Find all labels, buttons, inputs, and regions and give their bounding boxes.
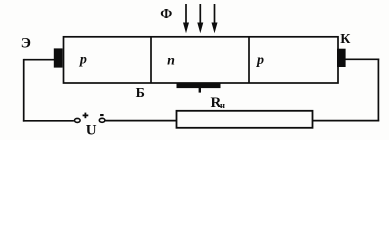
collector contact electrode <box>337 49 346 67</box>
wire left vertical <box>23 59 25 122</box>
plus sign <box>83 113 89 119</box>
wire emitter horizontal <box>24 59 55 61</box>
svg-text:К: К <box>340 32 351 47</box>
wire bottom left <box>23 120 74 122</box>
junction divider 2 (n-p) <box>248 37 250 83</box>
base terminal tick <box>199 88 201 93</box>
wire collector horizontal <box>346 58 380 60</box>
light arrow 1 <box>183 4 189 33</box>
minus sign <box>100 114 104 116</box>
battery terminal circle right <box>99 118 105 122</box>
junction divider 1 (p-n) <box>150 37 152 83</box>
wire resistor to right <box>313 120 380 122</box>
emitter contact electrode <box>54 48 63 67</box>
svg-text:н: н <box>220 100 225 110</box>
resistor Rн body <box>177 111 313 128</box>
svg-text:p: p <box>256 53 264 68</box>
wire right vertical <box>377 59 379 122</box>
svg-text:p: p <box>79 52 87 67</box>
light arrow 3 <box>212 4 218 33</box>
battery terminal circle left <box>75 118 81 122</box>
wire battery to resistor <box>105 120 177 122</box>
svg-text:Ф: Ф <box>160 7 172 22</box>
light arrow 2 <box>197 4 203 33</box>
svg-text:U: U <box>86 123 97 139</box>
svg-text:n: n <box>167 53 175 68</box>
svg-text:Э: Э <box>21 36 31 52</box>
base contact bar <box>177 84 221 89</box>
svg-text:Б: Б <box>136 86 145 101</box>
transistor body outline <box>64 37 339 83</box>
